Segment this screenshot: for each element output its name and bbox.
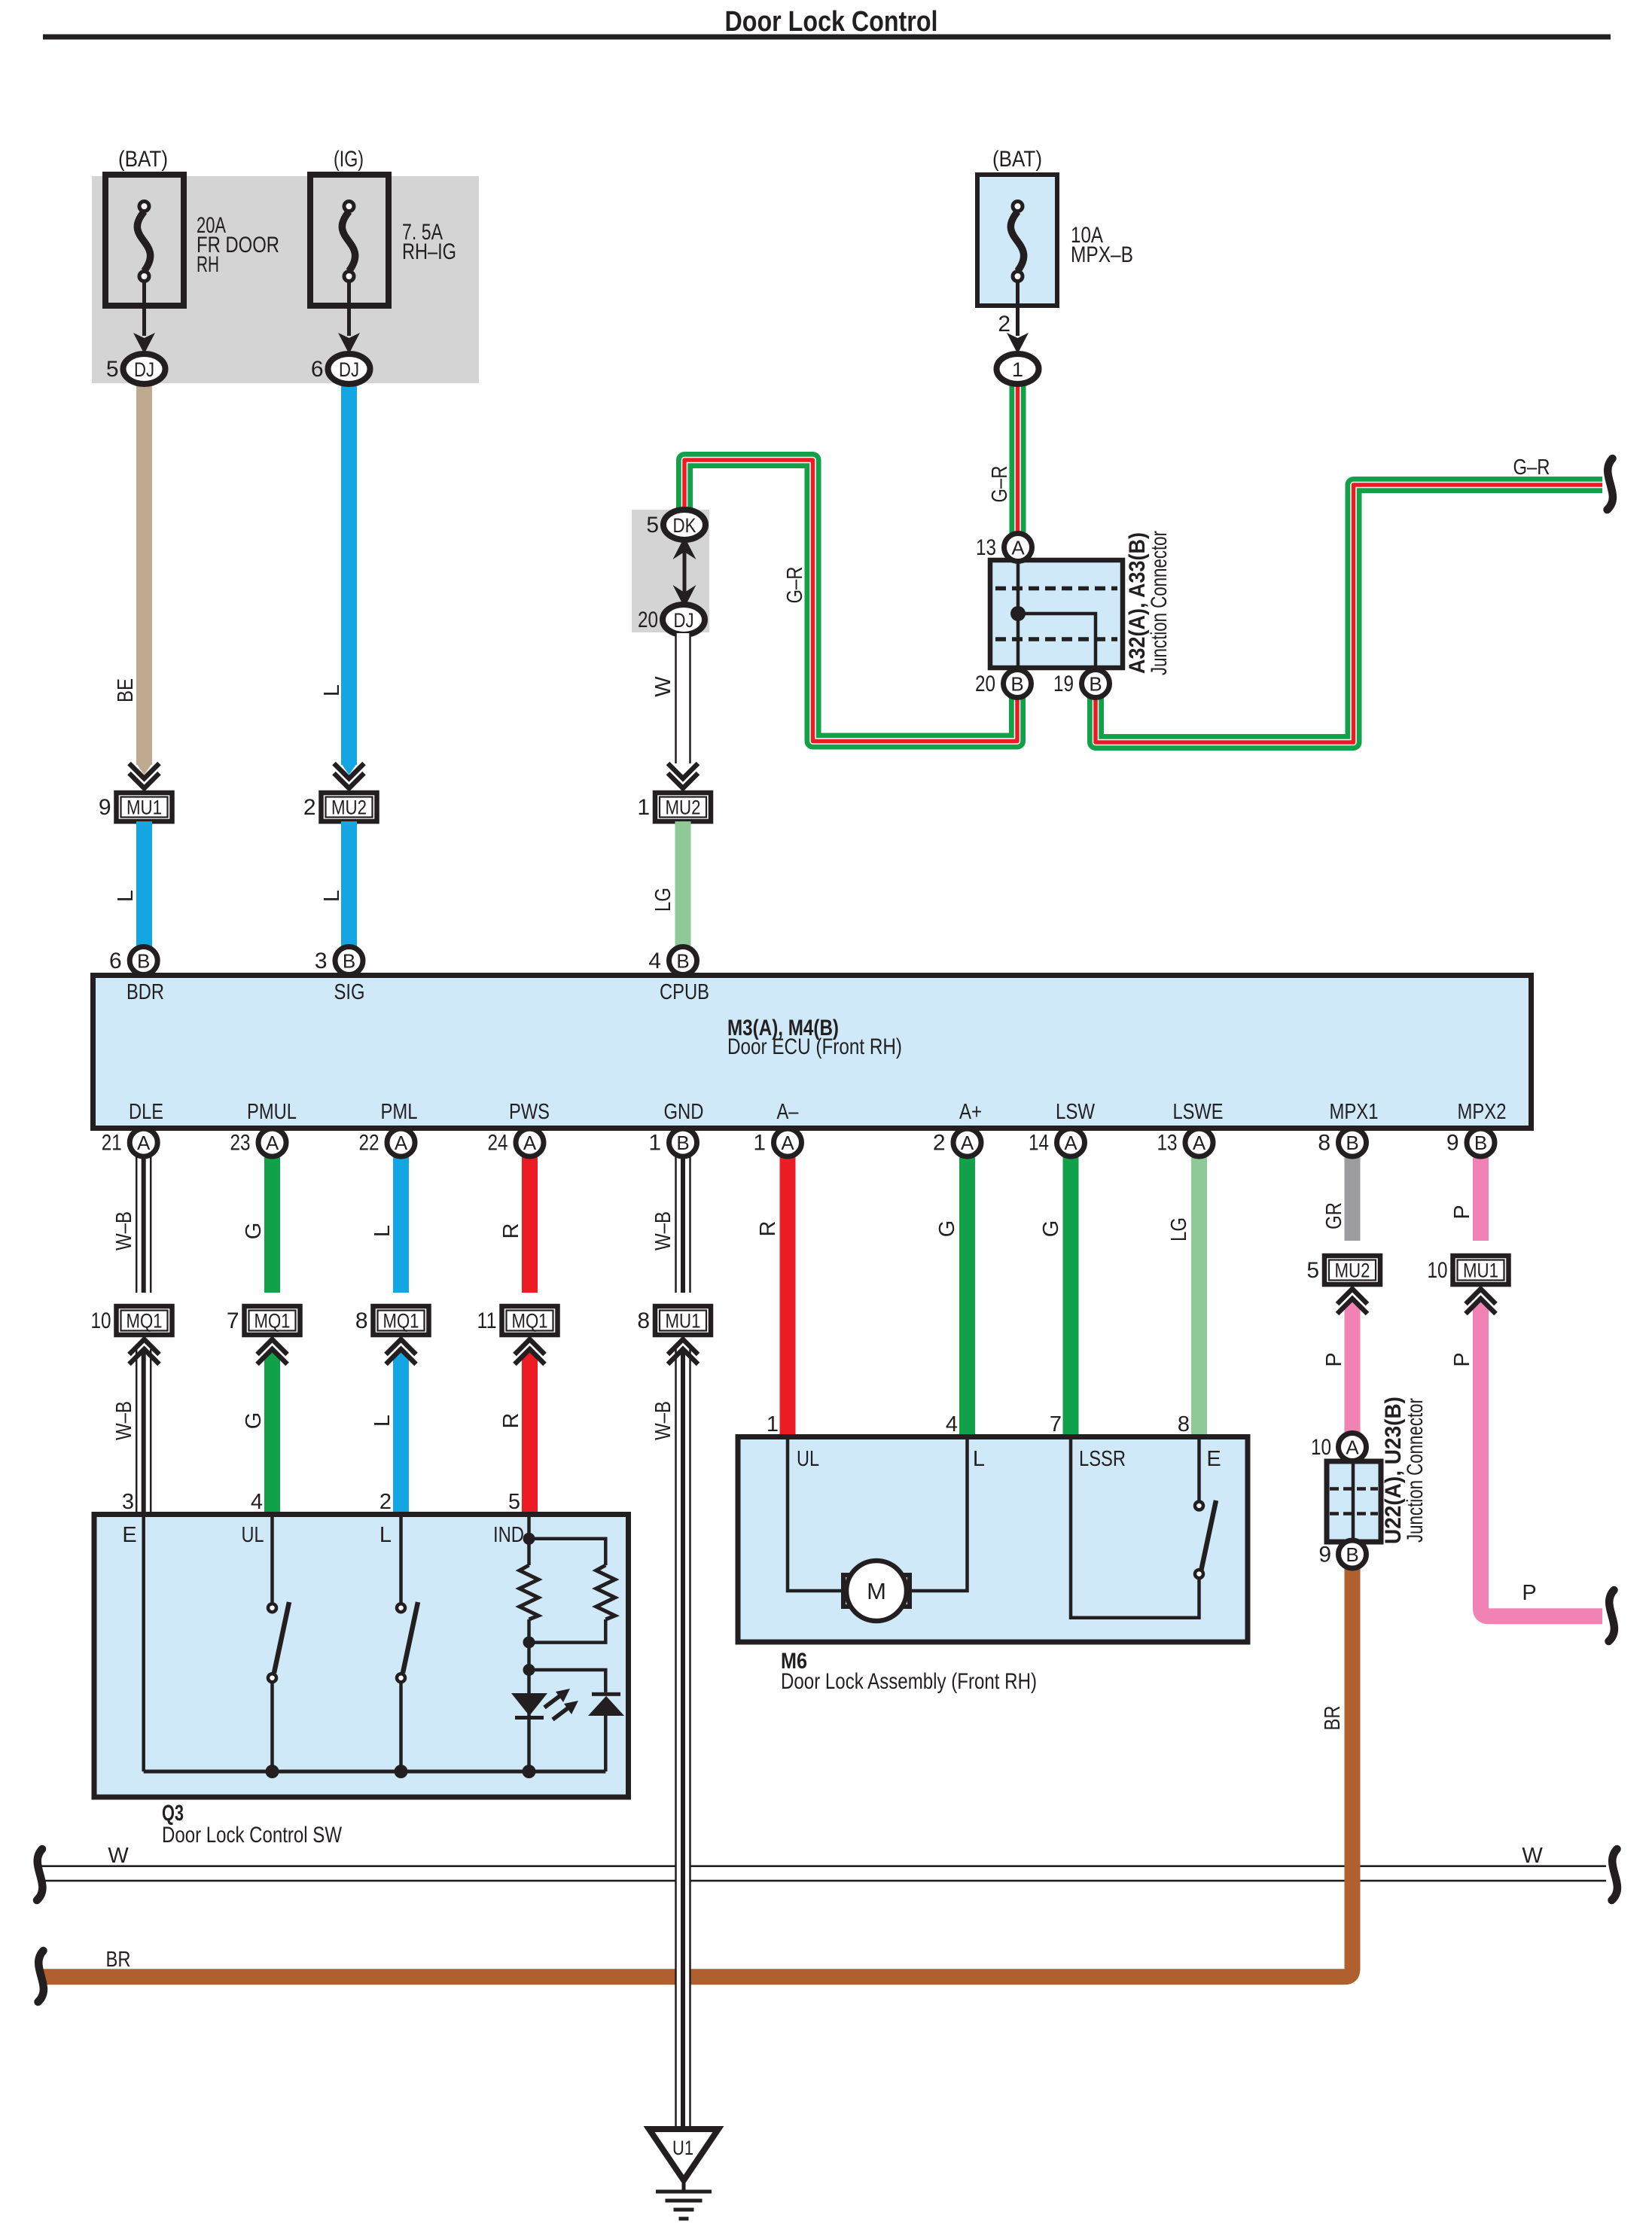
svg-text:A: A (266, 1132, 279, 1154)
wire G green ECU 14A to M6 pin 7 (1063, 1156, 1079, 1436)
svg-text:IND: IND (493, 1523, 524, 1547)
pin 19 B (1082, 670, 1110, 698)
svg-text:G–R: G–R (988, 466, 1012, 503)
svg-text:DLE: DLE (129, 1100, 163, 1124)
svg-text:DJ: DJ (674, 609, 694, 632)
svg-text:E: E (122, 1523, 136, 1547)
wire W-B from ECU 1B to MU1 (675, 1156, 691, 1293)
ECU top pin 3 B (335, 947, 363, 975)
ECU top pin 6 B (130, 947, 157, 975)
svg-text:L: L (370, 1225, 395, 1237)
wire L blue MU2 to ECU pin 3B (341, 821, 357, 950)
svg-text:B: B (676, 950, 689, 973)
chevron below MQ1 (PWS) (515, 1339, 545, 1354)
svg-text:9: 9 (99, 795, 111, 820)
wire break squiggle W left (37, 1849, 42, 1900)
svg-text:M: M (867, 1578, 886, 1604)
svg-text:MPX1: MPX1 (1330, 1100, 1379, 1124)
ECU top pin 4 B (669, 947, 697, 975)
wire W white horizontal across page (39, 1865, 1606, 1867)
svg-text:A: A (395, 1132, 408, 1154)
ECU pin 1 A (774, 1129, 802, 1156)
svg-text:UL: UL (242, 1523, 264, 1547)
arrow from fuse 7.5A to DJ oval 6 (347, 280, 351, 336)
Q3 L switch (399, 1517, 403, 1604)
svg-text:Door Lock Control SW: Door Lock Control SW (162, 1823, 343, 1848)
ECU pin 2 A (953, 1129, 981, 1156)
U22 dashed row 2 (1330, 1512, 1378, 1516)
M6 motor circuit wires (788, 1439, 841, 1591)
resistor R1 (IND) (520, 1565, 538, 1619)
svg-text:8: 8 (1318, 1131, 1330, 1156)
chevron below MU2 (MPX1) (1337, 1289, 1367, 1304)
svg-text:MQ1: MQ1 (126, 1310, 163, 1333)
svg-text:MQ1: MQ1 (383, 1310, 419, 1333)
svg-text:G: G (1039, 1220, 1063, 1238)
svg-text:W: W (1522, 1844, 1543, 1868)
U22 dashed row 1 (1330, 1487, 1378, 1491)
chevron below MQ1 (PMUL) (258, 1339, 288, 1354)
svg-text:1: 1 (637, 795, 650, 820)
wire G-R from junction B20 to DK connector (via two corners) (684, 460, 1017, 742)
wire break squiggle G-R right (1608, 458, 1613, 510)
double arrow between DK and DJ (683, 550, 687, 595)
svg-text:L: L (973, 1447, 985, 1471)
wire G green from MQ1 to Q3 pin 4 (264, 1360, 280, 1515)
ECU pin 14 A (1057, 1129, 1085, 1156)
wire break squiggle P right (1609, 1590, 1614, 1641)
svg-text:A–: A– (777, 1100, 800, 1124)
svg-text:R: R (499, 1223, 523, 1239)
junction connector U22(A) U23(B) box (1327, 1461, 1381, 1542)
connector MQ1 pin 10 (117, 1306, 172, 1335)
connector MU1 pin 9 (117, 793, 172, 821)
wire L blue from ECU 22A to MQ1 (393, 1156, 409, 1293)
svg-text:BR: BR (1321, 1706, 1345, 1731)
svg-text:A: A (523, 1132, 537, 1154)
connector block shading (DK/DJ) (632, 510, 709, 632)
svg-text:GR: GR (1322, 1202, 1346, 1229)
svg-text:6: 6 (311, 357, 324, 382)
svg-text:8: 8 (637, 1308, 650, 1333)
svg-text:7: 7 (1050, 1412, 1062, 1436)
svg-text:R: R (756, 1221, 780, 1237)
pin 13 A (1004, 534, 1032, 562)
svg-text:B: B (1474, 1132, 1487, 1154)
svg-text:L: L (114, 890, 138, 902)
svg-text:PML: PML (381, 1100, 418, 1124)
svg-text:9: 9 (1318, 1543, 1331, 1567)
wire W-B from MU1 to ground U1 (675, 1349, 691, 2129)
U22 pin 9 B (1339, 1540, 1367, 1568)
svg-text:L: L (320, 684, 344, 696)
svg-text:Junction Connector: Junction Connector (1147, 531, 1172, 675)
fuse 20A FR DOOR RH box (105, 175, 184, 306)
ECU pin 21 A (130, 1129, 157, 1156)
U22 internal vertical line (1352, 1464, 1355, 1540)
connector MU2 pin 2 (322, 793, 377, 821)
svg-text:1: 1 (648, 1131, 661, 1156)
M6 lock position switch LSSR (1071, 1439, 1199, 1618)
svg-text:3: 3 (122, 1490, 134, 1514)
svg-text:W–B: W–B (112, 1211, 136, 1251)
pin 20 B (1004, 670, 1032, 698)
svg-text:E: E (1206, 1447, 1221, 1471)
svg-text:B: B (1010, 673, 1023, 696)
svg-text:LG: LG (651, 888, 675, 912)
svg-text:(BAT): (BAT) (118, 147, 168, 172)
svg-text:13: 13 (1157, 1131, 1178, 1156)
svg-text:B: B (343, 950, 355, 973)
svg-text:5: 5 (1306, 1258, 1319, 1283)
svg-text:P: P (1450, 1352, 1474, 1366)
wire G green from ECU 23A to MQ1 (264, 1156, 280, 1293)
LED indicator diode (down) (511, 1693, 547, 1716)
svg-text:L: L (320, 890, 344, 902)
svg-text:A: A (1064, 1132, 1077, 1154)
wire L blue from MQ1 to Q3 pin 2 (393, 1360, 409, 1515)
svg-text:DK: DK (673, 514, 696, 537)
U22 pin 10 A (1339, 1433, 1367, 1461)
svg-text:PMUL: PMUL (247, 1100, 297, 1124)
svg-text:MPX2: MPX2 (1458, 1100, 1507, 1124)
connector MU2 pin 1 (655, 793, 711, 821)
svg-text:4: 4 (251, 1490, 263, 1514)
svg-text:PWS: PWS (509, 1100, 550, 1124)
chevron into MU2 (W wire) (668, 763, 698, 778)
junction node dot (1010, 606, 1026, 621)
ground symbol U1 (649, 2129, 718, 2180)
chevron into MU1 (BE wire) (130, 763, 160, 778)
svg-text:2: 2 (933, 1131, 946, 1156)
svg-text:Door ECU (Front RH): Door ECU (Front RH) (727, 1034, 902, 1059)
svg-text:A: A (1011, 537, 1025, 559)
M6 Door Lock Assembly box (738, 1437, 1248, 1643)
wire break squiggle BR left (38, 1951, 44, 2002)
svg-text:22: 22 (359, 1131, 379, 1156)
wire break squiggle W right (1612, 1849, 1617, 1900)
wire LG light green MU2 to ECU pin 4B (675, 821, 691, 950)
wire G-R from junction B19 to right edge squiggle (1096, 485, 1602, 742)
branch to diode D2 (529, 1670, 606, 1692)
svg-text:BDR: BDR (126, 980, 164, 1004)
wire BR brown from U22 B9 down and across to left edge (41, 1567, 1352, 1977)
motor M brackets (843, 1575, 855, 1607)
connector MQ1 pin 8 (373, 1306, 429, 1335)
svg-text:3: 3 (315, 949, 328, 973)
svg-text:14: 14 (1029, 1131, 1049, 1156)
svg-text:MPX–B: MPX–B (1071, 242, 1133, 267)
svg-text:21: 21 (102, 1131, 122, 1156)
wire GR gray from ECU 8B to MU2 (1345, 1156, 1361, 1241)
connector MU1 pin 10 (MPX2) (1453, 1256, 1509, 1284)
svg-text:G: G (242, 1223, 266, 1240)
wire W-B from ECU 21A to MQ1 (136, 1156, 152, 1293)
svg-text:P: P (1450, 1205, 1474, 1219)
svg-text:MU2: MU2 (331, 797, 367, 819)
svg-text:MU1: MU1 (1463, 1260, 1498, 1282)
svg-text:5: 5 (106, 357, 119, 382)
ECU pin 13 A (1185, 1129, 1213, 1156)
svg-text:B: B (137, 950, 150, 973)
fuse 7.5A symbol (342, 212, 355, 271)
svg-text:A: A (1346, 1436, 1359, 1459)
svg-text:1: 1 (753, 1131, 766, 1156)
svg-text:11: 11 (477, 1308, 497, 1333)
svg-text:P: P (1522, 1581, 1536, 1605)
wire P pink from MU1 down to right edge squiggle (1481, 1310, 1603, 1616)
oval DK pin 5 (663, 510, 706, 540)
svg-text:B: B (1346, 1132, 1358, 1154)
Q3 bus dot IND (523, 1765, 536, 1778)
svg-text:RH: RH (197, 252, 219, 277)
junction internal branch to B19 (1018, 614, 1096, 666)
svg-text:9: 9 (1446, 1131, 1459, 1156)
Q3 node dot IND top (523, 1533, 535, 1545)
Q3 IND branch main line (527, 1517, 531, 1565)
svg-text:A: A (137, 1132, 151, 1154)
svg-text:2: 2 (303, 795, 316, 820)
svg-text:B: B (1089, 673, 1102, 696)
Q3 bus dot UL (266, 1765, 279, 1778)
svg-text:MU1: MU1 (666, 1310, 701, 1333)
Q3 internal E line (142, 1517, 145, 1771)
svg-text:Junction Connector: Junction Connector (1403, 1398, 1428, 1543)
svg-text:10: 10 (91, 1308, 111, 1333)
motor M circle (846, 1561, 907, 1621)
ECU pin 9 B (1467, 1129, 1495, 1156)
wire L blue MU1 to ECU pin 6B (136, 821, 152, 950)
svg-text:BR: BR (106, 1948, 131, 1972)
connector MQ1 pin 11 (502, 1306, 558, 1335)
arrow from fuse MPX-B pin 2 to oval 1 (1016, 280, 1020, 336)
svg-text:24: 24 (488, 1131, 508, 1156)
chevron below MU1 (MPX2) (1466, 1289, 1496, 1304)
wire P pink from MU2 to U22 A10 (1345, 1310, 1361, 1433)
svg-text:LSW: LSW (1056, 1100, 1096, 1124)
IND top branch to resistor R2 (529, 1539, 606, 1565)
svg-text:10: 10 (1311, 1435, 1331, 1460)
svg-text:4: 4 (946, 1412, 958, 1436)
svg-text:W–B: W–B (651, 1211, 675, 1251)
diode D2 (up) (592, 1692, 620, 1696)
svg-text:Door Lock Control: Door Lock Control (725, 6, 938, 38)
Q3 node dot resistor junction (523, 1636, 535, 1648)
svg-text:G–R: G–R (783, 567, 807, 604)
svg-text:DJ: DJ (339, 358, 359, 381)
svg-text:(BAT): (BAT) (992, 147, 1042, 172)
svg-text:L: L (379, 1523, 392, 1547)
ECU pin 23 A (258, 1129, 286, 1156)
svg-text:5: 5 (646, 513, 659, 538)
svg-text:W–B: W–B (651, 1401, 675, 1440)
oval 1 below MPX fuse (997, 354, 1039, 384)
svg-text:20: 20 (975, 672, 995, 696)
svg-text:Door Lock Assembly (Front RH): Door Lock Assembly (Front RH) (781, 1669, 1037, 1694)
junction connector dashed row 1 (995, 586, 1117, 591)
ECU pin 8 B (1339, 1129, 1367, 1156)
Q3 UL switch (270, 1517, 274, 1604)
ECU pin 24 A (516, 1129, 544, 1156)
svg-text:1: 1 (767, 1412, 779, 1436)
svg-text:G: G (242, 1412, 266, 1430)
Q3 Door Lock Control SW box (94, 1515, 629, 1798)
ECU pin 1 B (669, 1129, 697, 1156)
svg-text:GND: GND (664, 1100, 704, 1124)
svg-text:20: 20 (638, 608, 658, 632)
Q3 bus dot L (395, 1765, 408, 1778)
svg-text:1: 1 (1012, 358, 1023, 381)
svg-text:6: 6 (109, 949, 122, 973)
svg-text:8: 8 (355, 1308, 368, 1333)
oval DJ pin 5 (under fuse 20A) (123, 354, 166, 384)
svg-text:UL: UL (797, 1447, 819, 1471)
oval DJ pin 6 (under fuse 7.5A) (328, 354, 370, 384)
fuse 20A symbol (137, 212, 150, 271)
ECU pin 22 A (387, 1129, 415, 1156)
arrow from fuse 20A to DJ oval 5 (142, 280, 146, 336)
svg-text:B: B (676, 1132, 689, 1154)
svg-text:DJ: DJ (134, 358, 154, 381)
wire W white from DJ 20 to MU2 (675, 633, 691, 763)
wire R red ECU 1A to M6 pin 1 (780, 1156, 796, 1436)
svg-text:G: G (935, 1220, 959, 1238)
Q3 node dot diode junction (523, 1664, 535, 1676)
svg-text:W: W (108, 1844, 129, 1868)
svg-text:W: W (651, 676, 675, 697)
chevron into MU2 (L wire) (334, 763, 364, 778)
Door ECU box M3(A) M4(B) (93, 976, 1532, 1129)
svg-text:CPUB: CPUB (660, 980, 709, 1004)
svg-text:5: 5 (508, 1490, 520, 1514)
svg-text:23: 23 (230, 1131, 251, 1156)
svg-text:13: 13 (976, 535, 996, 560)
svg-text:A+: A+ (959, 1100, 982, 1124)
svg-text:LSSR: LSSR (1079, 1447, 1126, 1471)
fuse 10A MPX-B box (977, 175, 1057, 306)
wire R red from MQ1 to Q3 pin 5 (522, 1360, 538, 1515)
svg-text:MU2: MU2 (666, 797, 701, 819)
fuse 10A symbol (1010, 212, 1023, 271)
svg-text:L: L (370, 1415, 395, 1427)
svg-text:MU1: MU1 (126, 797, 162, 819)
svg-text:B: B (1346, 1543, 1358, 1566)
svg-text:RH–IG: RH–IG (402, 239, 456, 264)
svg-text:A: A (1193, 1132, 1206, 1154)
junction internal wire A13-B20 (1016, 562, 1020, 666)
svg-text:R: R (499, 1413, 523, 1429)
svg-text:4: 4 (648, 949, 661, 973)
junction connector dashed row 2 (995, 637, 1117, 641)
ground bars (656, 2190, 712, 2194)
junction connector A32(A) A33(B) box (990, 560, 1123, 668)
svg-text:LG: LG (1167, 1217, 1191, 1241)
svg-text:(IG): (IG) (334, 147, 364, 172)
svg-text:U1: U1 (672, 2137, 693, 2159)
wire G-R from fuse MPX-B oval 1 to junction A pin 13 (1010, 380, 1026, 544)
svg-text:SIG: SIG (334, 980, 365, 1004)
svg-text:7: 7 (227, 1308, 239, 1333)
wire R red from ECU 24A to MQ1 (522, 1156, 538, 1293)
svg-text:A: A (961, 1132, 974, 1154)
svg-text:8: 8 (1178, 1412, 1190, 1436)
svg-text:MQ1: MQ1 (512, 1310, 548, 1333)
chevron below MU1 (GND) (668, 1339, 698, 1354)
resistor R2 (596, 1565, 615, 1619)
wire LG light green ECU 13A to M6 pin 8 (1191, 1156, 1207, 1436)
fuse block shading (top left) (92, 176, 479, 383)
wire G green ECU 2A to M6 pin 4 (959, 1156, 975, 1436)
svg-text:G–R: G–R (1513, 455, 1550, 480)
chevron below MQ1 (PML) (386, 1339, 416, 1354)
svg-text:A: A (781, 1132, 794, 1154)
connector MQ1 pin 7 (245, 1306, 300, 1335)
Q3 internal bus line (144, 1770, 606, 1774)
svg-text:MQ1: MQ1 (255, 1310, 291, 1333)
svg-text:P: P (1322, 1352, 1346, 1366)
svg-text:19: 19 (1053, 672, 1074, 696)
chevron below MQ1 (DLE) (130, 1339, 160, 1354)
wire BE (beige) from DJ 5 to MU1 (136, 380, 152, 765)
svg-text:W–B: W–B (112, 1401, 136, 1440)
svg-text:2: 2 (379, 1490, 392, 1514)
wire P pink from ECU 9B to MU1 (1473, 1156, 1489, 1241)
title rule (43, 35, 1611, 40)
svg-text:LSWE: LSWE (1173, 1100, 1224, 1124)
connector MU2 pin 5 (MPX1) (1324, 1256, 1380, 1284)
fuse 7.5A RH-IG box (310, 175, 389, 306)
LED arrows (544, 1696, 559, 1707)
wire L blue from DJ 6 to MU2 (341, 380, 357, 765)
wire W-B from MQ1 to Q3 pin 3 (136, 1349, 152, 1515)
svg-text:2: 2 (998, 312, 1010, 337)
svg-text:10: 10 (1428, 1258, 1448, 1283)
connector MU1 pin 8 (GND) (655, 1306, 711, 1335)
oval DJ pin 20 (663, 605, 705, 635)
svg-text:BE: BE (114, 678, 138, 702)
svg-text:MU2: MU2 (1335, 1260, 1370, 1282)
